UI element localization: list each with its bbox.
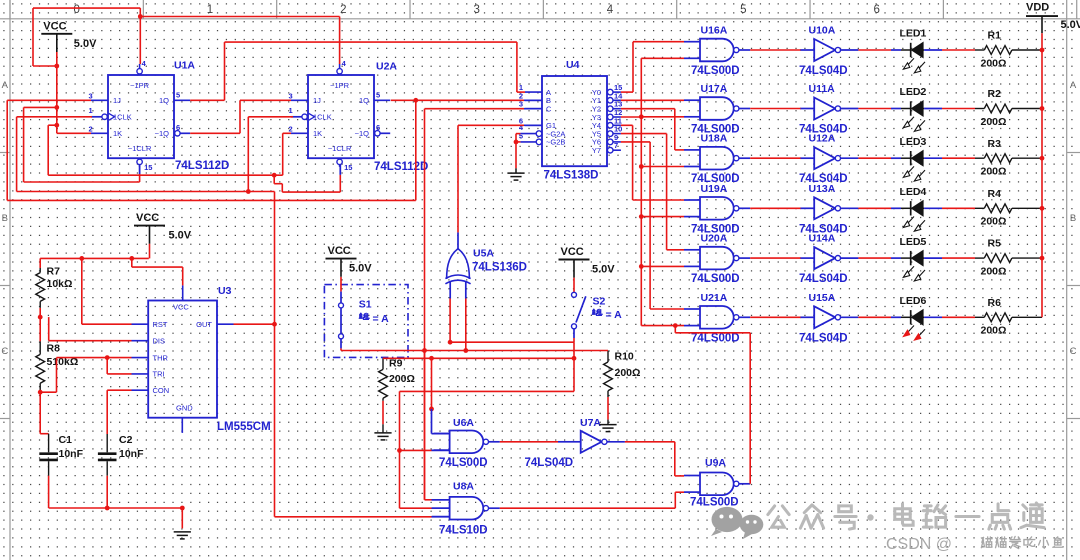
svg-text:1K: 1K	[113, 129, 122, 138]
svg-text:B: B	[1070, 213, 1076, 224]
svg-text:3: 3	[89, 92, 93, 101]
svg-text:10nF: 10nF	[119, 448, 144, 460]
svg-text:5: 5	[376, 91, 380, 100]
svg-text:74LS00D: 74LS00D	[691, 332, 740, 344]
svg-text:2: 2	[289, 125, 293, 134]
svg-text:200Ω: 200Ω	[981, 57, 1007, 69]
svg-text:1CLK: 1CLK	[313, 113, 332, 122]
svg-text:C: C	[1070, 346, 1077, 357]
svg-text:U18A: U18A	[701, 133, 728, 145]
svg-text:5: 5	[740, 4, 746, 16]
svg-text:R5: R5	[988, 238, 1002, 250]
svg-text:CON: CON	[153, 386, 170, 395]
svg-text:OUT: OUT	[196, 320, 212, 329]
svg-text:VCC: VCC	[561, 246, 584, 258]
svg-text:U10A: U10A	[809, 25, 836, 37]
svg-text:3: 3	[289, 92, 293, 101]
svg-text:U17A: U17A	[701, 83, 728, 95]
svg-text:TRI: TRI	[153, 370, 165, 379]
svg-text:R2: R2	[988, 88, 1002, 100]
svg-text:U3: U3	[218, 285, 232, 297]
svg-text:GND: GND	[176, 404, 193, 413]
svg-text:~1Q: ~1Q	[355, 129, 370, 138]
svg-text:15: 15	[144, 163, 152, 172]
svg-text:DIS: DIS	[153, 337, 166, 346]
svg-text:U9A: U9A	[705, 457, 726, 469]
svg-text:2: 2	[89, 125, 93, 134]
svg-text:U20A: U20A	[701, 233, 728, 245]
svg-text:U13A: U13A	[809, 183, 836, 195]
svg-text:200Ω: 200Ω	[981, 325, 1007, 337]
svg-text:5.0V: 5.0V	[1061, 19, 1080, 31]
svg-text:6: 6	[176, 123, 180, 132]
svg-text:Y7: Y7	[592, 146, 601, 155]
svg-text:1CLK: 1CLK	[113, 113, 132, 122]
svg-text:U19A: U19A	[701, 183, 728, 195]
svg-text:VDD: VDD	[1026, 2, 1049, 14]
svg-text:1J: 1J	[113, 96, 121, 105]
svg-text:74LS00D: 74LS00D	[691, 273, 740, 285]
svg-text:200Ω: 200Ω	[981, 166, 1007, 178]
svg-text:3: 3	[473, 4, 479, 16]
svg-text:R7: R7	[47, 266, 61, 278]
svg-text:6: 6	[376, 123, 380, 132]
svg-text:200Ω: 200Ω	[981, 116, 1007, 128]
svg-text:7: 7	[614, 141, 618, 150]
svg-text:R8: R8	[47, 343, 61, 355]
svg-text:U21A: U21A	[701, 292, 728, 304]
svg-text:~1Q: ~1Q	[155, 129, 170, 138]
svg-text:1K: 1K	[313, 129, 322, 138]
svg-text:R4: R4	[988, 188, 1002, 200]
svg-text:74LS138D: 74LS138D	[544, 170, 599, 182]
svg-text:0: 0	[73, 4, 79, 16]
svg-text:U7A: U7A	[580, 417, 601, 429]
svg-text:74LS00D: 74LS00D	[439, 457, 488, 469]
svg-text:74LS04D: 74LS04D	[799, 332, 848, 344]
svg-text:S2: S2	[593, 296, 606, 308]
svg-text:CSDN @: CSDN @	[886, 536, 952, 553]
svg-text:THR: THR	[153, 353, 169, 362]
svg-text:R9: R9	[389, 358, 403, 370]
svg-text:6: 6	[873, 4, 879, 16]
svg-text:1: 1	[89, 106, 93, 115]
svg-text:= A: = A	[373, 313, 390, 325]
svg-text:LED1: LED1	[900, 28, 927, 40]
svg-text:C2: C2	[119, 434, 133, 446]
svg-text:1J: 1J	[313, 96, 321, 105]
svg-text:RST: RST	[153, 320, 168, 329]
svg-text:U16A: U16A	[701, 25, 728, 37]
svg-text:4: 4	[607, 4, 614, 16]
svg-text:LM555CM: LM555CM	[217, 421, 271, 433]
svg-text:200Ω: 200Ω	[981, 266, 1007, 278]
svg-text:U4: U4	[566, 59, 580, 71]
svg-text:~G2B: ~G2B	[546, 138, 565, 147]
svg-text:A: A	[1070, 80, 1077, 91]
svg-text:1: 1	[207, 4, 213, 16]
svg-text:1Q: 1Q	[159, 96, 169, 105]
svg-text:~1PR: ~1PR	[130, 81, 150, 90]
svg-text:200Ω: 200Ω	[389, 373, 415, 385]
svg-text:74LS00D: 74LS00D	[691, 65, 740, 77]
svg-text:2: 2	[340, 4, 346, 16]
svg-text:1: 1	[289, 106, 293, 115]
svg-text:~1CLR: ~1CLR	[128, 144, 152, 153]
svg-text:10nF: 10nF	[59, 448, 84, 460]
svg-text:= A: = A	[606, 309, 623, 321]
svg-text:R3: R3	[988, 138, 1002, 150]
svg-text:U14A: U14A	[809, 233, 836, 245]
svg-text:VCC: VCC	[328, 245, 351, 257]
svg-text:U6A: U6A	[453, 417, 474, 429]
svg-text:5: 5	[176, 91, 180, 100]
svg-text:~1PR: ~1PR	[330, 81, 350, 90]
svg-text:74LS10D: 74LS10D	[439, 524, 488, 536]
svg-text:C: C	[546, 105, 552, 114]
svg-text:VCC: VCC	[43, 20, 66, 32]
svg-text:15: 15	[344, 163, 352, 172]
svg-text:74LS112D: 74LS112D	[175, 160, 229, 172]
svg-text:S1: S1	[359, 299, 372, 311]
svg-text:R6: R6	[988, 297, 1002, 309]
svg-text:LED6: LED6	[900, 295, 927, 307]
svg-text:LED2: LED2	[900, 86, 927, 98]
svg-text:5.0V: 5.0V	[169, 230, 192, 242]
svg-text:B: B	[2, 213, 8, 224]
svg-text:A: A	[2, 80, 9, 91]
svg-text:R1: R1	[988, 30, 1002, 42]
svg-text:5.0V: 5.0V	[349, 263, 372, 275]
svg-text:74LS00D: 74LS00D	[690, 497, 739, 509]
svg-text:U1A: U1A	[174, 60, 195, 72]
svg-text:LED4: LED4	[900, 186, 927, 198]
svg-text:U11A: U11A	[809, 83, 836, 95]
svg-text:200Ω: 200Ω	[615, 367, 641, 379]
svg-text:U2A: U2A	[376, 61, 397, 73]
svg-text:~1CLR: ~1CLR	[328, 144, 352, 153]
svg-text:74LS04D: 74LS04D	[799, 65, 848, 77]
svg-text:LED5: LED5	[900, 236, 927, 248]
svg-text:U12A: U12A	[809, 133, 836, 145]
svg-text:R10: R10	[615, 351, 634, 363]
svg-text:74LS136D: 74LS136D	[472, 262, 527, 274]
svg-text:10kΩ: 10kΩ	[47, 278, 73, 290]
svg-text:74LS112D: 74LS112D	[374, 161, 428, 173]
svg-text:5.0V: 5.0V	[74, 38, 97, 50]
svg-text:U15A: U15A	[809, 292, 836, 304]
svg-text:VCC: VCC	[136, 212, 159, 224]
svg-text:74LS04D: 74LS04D	[525, 457, 574, 469]
svg-text:5: 5	[519, 131, 523, 140]
svg-text:5.0V: 5.0V	[592, 264, 615, 276]
svg-text:74LS04D: 74LS04D	[799, 273, 848, 285]
svg-text:200Ω: 200Ω	[981, 216, 1007, 228]
svg-text:C: C	[1, 346, 8, 357]
svg-text:VCC: VCC	[173, 303, 189, 312]
svg-text:C1: C1	[59, 434, 73, 446]
svg-text:LED3: LED3	[900, 136, 927, 148]
svg-text:U8A: U8A	[453, 480, 474, 492]
svg-text:U5A: U5A	[473, 248, 494, 260]
svg-text:1Q: 1Q	[359, 96, 369, 105]
